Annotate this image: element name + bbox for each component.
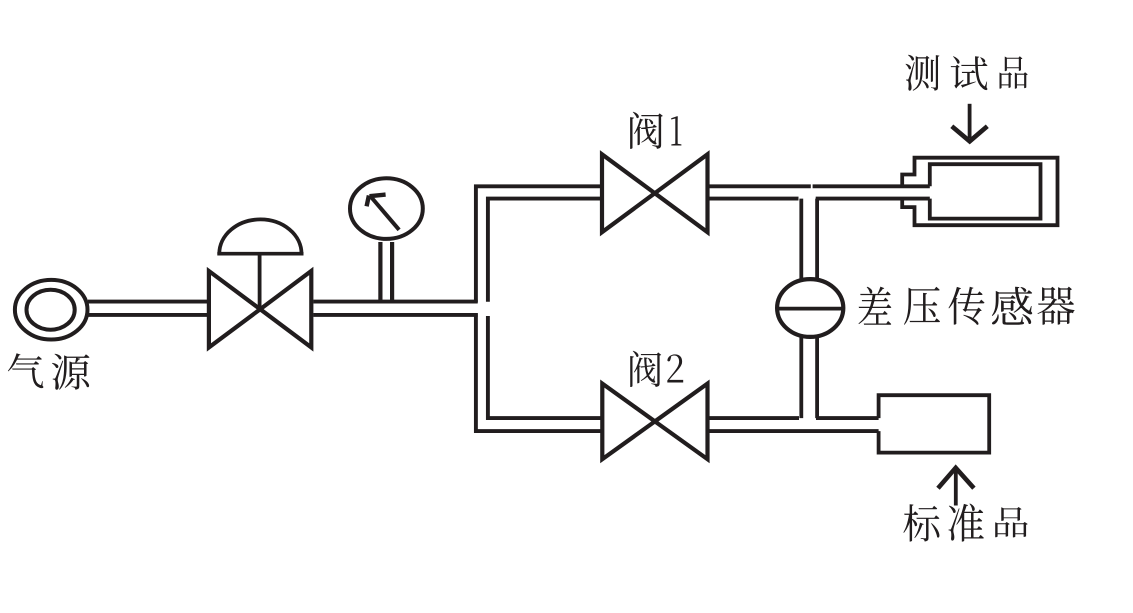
label 气源 [8,353,90,390]
valve 1 body (bowtie) [602,154,655,232]
test vessel inner cavity [930,164,1041,218]
regulator stem [258,254,262,310]
test vessel outer shell [902,158,1057,226]
gauge stem lines [378,242,382,302]
pipe: valve 2 to standard vessel, upper line with tee gap [708,416,800,420]
pressure gauge [350,178,423,239]
label 阀1 [630,112,681,149]
pipe: valve 2 to standard vessel, lower line [708,429,879,433]
sensor branch upper pipe lines [799,199,803,279]
arrow down to test vessel [968,104,972,138]
junction riser: inner right line + top branch lower line to valve 1 [488,199,602,302]
pipe: regulator to junction, lower line [313,313,477,317]
pipe: valve 1 to test vessel, upper line [708,184,811,188]
valve 2 body (bowtie) [602,384,655,460]
pipe: source to regulator, lower line [88,313,207,317]
arrow up from standard vessel [954,471,958,506]
junction riser: outer left line + top branch upper line to valve 1 [476,186,602,302]
sensor branch lower pipe lines [799,338,803,419]
pipe: source to regulator, upper line [88,300,207,304]
pressure regulator valve body [209,271,260,347]
pipe: regulator to junction, upper line [313,300,477,304]
label 阀2 [630,351,683,387]
standard vessel [879,395,990,452]
gas source (air supply) [15,280,88,340]
label 标准品 [903,503,1027,541]
differential pressure sensor [777,279,843,337]
junction drop: outer left line + bottom branch lower line to valve 2 [476,313,602,431]
regulator dome actuator [219,219,301,253]
pipe: valve 1 to test vessel, lower line with tee gap [708,197,799,201]
gauge needle [370,196,399,230]
label 测试品 [906,55,1028,91]
junction drop: inner right line + bottom branch upper line to valve 2 [488,316,602,418]
label 差压传感器 [858,287,1074,325]
